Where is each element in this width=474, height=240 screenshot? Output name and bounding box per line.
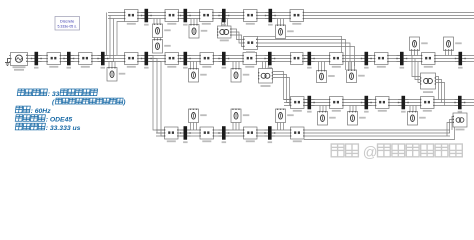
bus B21 (180, 126, 191, 140)
bus B18 (361, 96, 372, 110)
bus B8 (304, 52, 315, 66)
label label T1 (261, 85, 271, 87)
label label load Ld18 (359, 117, 366, 119)
label label M1 (246, 51, 255, 53)
label label B19 (401, 111, 406, 113)
wire bundle V3 T1-to-row3 (273, 72, 291, 106)
line L6 (243, 53, 258, 65)
label label B22 (222, 141, 227, 143)
label label load Ld22 (243, 114, 250, 116)
label label L12 (167, 23, 176, 25)
label label L22 (246, 140, 255, 142)
bus B4 (141, 52, 152, 66)
line L8 (329, 53, 344, 65)
wire Ld6 stubs (3-phase stubs) (233, 62, 239, 69)
wire bundle V2 row2-to-row4 (149, 56, 165, 137)
label label L6 (245, 66, 254, 68)
bus B11 (455, 52, 466, 66)
label label L20 (167, 140, 176, 142)
transformer T2 (420, 73, 436, 89)
load Ld3 (107, 67, 117, 81)
line L10 (421, 53, 436, 65)
line L15 (290, 10, 305, 22)
bus B17 (304, 96, 315, 110)
label label load Ld15 (287, 30, 294, 32)
label label T2 (423, 91, 433, 93)
line L4 (165, 53, 180, 65)
label label load Ld13 (201, 30, 208, 32)
load Ld18 (348, 111, 358, 125)
load Ld19 (408, 111, 418, 125)
label label load Ld5 (200, 74, 207, 76)
label label load Ld8 (328, 75, 335, 77)
svg-text:: ODE45: : ODE45 (46, 117, 73, 124)
label label load Ld10 (421, 42, 428, 44)
wire Ld10 stubs (3-phase stubs) (412, 51, 418, 56)
wire Ld9 stubs (3-phase stubs) (349, 62, 355, 71)
label label L1 (49, 66, 58, 68)
load Ld8 (317, 70, 327, 82)
bus B6 (218, 52, 229, 66)
line L18 (375, 97, 390, 109)
label label L15 (292, 23, 301, 25)
label label load Ld17 (329, 117, 336, 119)
label label B20 (458, 111, 463, 113)
label label B7 (268, 67, 273, 69)
label label load Ld12b (164, 45, 171, 47)
bus B14 (218, 9, 229, 22)
wire Ld13 stubs (3-phase stubs) (191, 19, 197, 25)
wire bundle V4 M1-to-row2 (258, 36, 355, 70)
label label load Ld3 (119, 73, 126, 75)
bus B12 (141, 9, 152, 22)
label label PS1 line1 (13, 66, 26, 68)
line L9 (374, 53, 389, 65)
bus B13 (180, 9, 191, 22)
wire Ld23 stubs (3-phase stubs) (278, 122, 284, 130)
load Ld15 (276, 25, 286, 39)
svg-text:@: @ (363, 145, 378, 161)
line L5 (200, 53, 215, 65)
label label L3 (127, 66, 136, 68)
label label B8 (307, 67, 312, 69)
bus B10 (396, 52, 407, 66)
measurement block M1 (243, 37, 257, 50)
label label L5 (202, 66, 211, 68)
label label B12 (144, 24, 149, 26)
wire feeder row3 (3-phase bundle) (284, 100, 474, 106)
line L20 (164, 127, 179, 139)
label label B4 (144, 67, 149, 69)
label label B1 (34, 67, 39, 69)
label label L13 (202, 23, 211, 25)
line L13 (199, 10, 214, 22)
wire Ld21 stubs (3-phase stubs) (191, 122, 197, 130)
bus B5 (180, 52, 191, 66)
line L14 (243, 10, 258, 22)
wire Ld18 stubs (3-phase stubs) (350, 106, 356, 112)
svg-text:): ) (122, 99, 125, 106)
wire Ld5 stubs (3-phase stubs) (191, 62, 197, 69)
label label load Ld23 (287, 114, 294, 116)
transformer T3 (217, 26, 232, 38)
wire Ld3 stubs (3-phase stubs) (109, 62, 115, 69)
line L19 (420, 97, 435, 109)
label label Ld20 (456, 129, 465, 131)
wire bundle V1 row1-to-row2 (105, 13, 125, 62)
annotation line5: FangZhenBuChang: 33.333 us (15, 123, 45, 130)
label label load Ld11 (455, 42, 462, 44)
label label B6 (222, 67, 227, 69)
bus B22 (218, 126, 229, 140)
powergui block (55, 17, 80, 31)
wire T3-to-M1 (231, 29, 244, 47)
annotation line4: QiuJieSuanFa: ODE45 (15, 115, 45, 122)
label label load Ld12 (164, 29, 171, 31)
load Ld22 (231, 109, 241, 123)
wire bundle V6 row4-end (304, 117, 455, 140)
line L17 (329, 97, 344, 109)
wire Ld8 stubs (3-phase stubs) (319, 62, 325, 71)
load Ld12 (153, 24, 163, 38)
load Ld12b (153, 39, 163, 53)
label label B2 (67, 67, 72, 69)
wire feeder row1 (3-phase bundle) (108, 13, 474, 19)
bus B15 (265, 9, 276, 22)
line L7 (290, 53, 304, 65)
bus B9 (361, 52, 372, 66)
line L21 (200, 127, 215, 139)
wire Ld15 stubs (3-phase stubs) (278, 19, 284, 26)
line L3 (124, 53, 139, 65)
label label B18 (364, 111, 369, 113)
line L1 (47, 53, 62, 65)
label label L2 (81, 66, 90, 68)
label label L4 (167, 66, 176, 68)
load Ld17 (318, 111, 328, 125)
svg-text:5.333e-05 s.: 5.333e-05 s. (57, 24, 76, 28)
svg-text:: 33.333 us: : 33.333 us (46, 125, 81, 132)
label label L16 (293, 110, 302, 112)
transformer T1 (258, 69, 273, 84)
line L23 (290, 127, 305, 139)
label label B15 (268, 24, 273, 26)
label label load Ld21 (200, 114, 207, 116)
label label B11 (458, 67, 463, 69)
load Ld5 (189, 68, 199, 82)
line L11 (124, 10, 139, 22)
label label B17 (307, 111, 312, 113)
wire bundle V5 row2-T2-row3 (412, 56, 445, 106)
label label T3 (220, 40, 229, 42)
label label B10 (400, 67, 405, 69)
label label B13 (183, 24, 188, 26)
watermark: ZhiHu @DianQiDaiMaXiaoPu (331, 144, 358, 157)
label label L18 (378, 110, 387, 112)
label label L14 (246, 23, 255, 25)
label label load Ld19 (419, 117, 426, 119)
label label L19 (423, 110, 432, 112)
wire Ld12b stubs (3-phase stubs) (155, 38, 161, 40)
line L12 (165, 10, 180, 22)
label label L17 (332, 110, 341, 112)
load Ld11 (444, 37, 454, 51)
bus B2 (63, 52, 74, 66)
line L2 (78, 53, 93, 65)
wire Ld19 stubs (3-phase stubs) (410, 106, 416, 112)
wire Ld11 stubs (3-phase stubs) (446, 51, 452, 56)
source PS1 (three-phase programmable voltage source) (10, 53, 27, 66)
label label PS1 line2 (14, 69, 24, 71)
load Ld6 (231, 68, 241, 82)
line L16 (290, 97, 305, 109)
wire T3 stubs (3-phase stubs) (222, 19, 228, 27)
wire Ld22 stubs (3-phase stubs) (233, 122, 239, 130)
label label L8 (332, 66, 341, 68)
load Ld9 (347, 70, 357, 83)
load Ld13 (189, 24, 199, 38)
annotation line3: PinLv: 60Hz (15, 106, 30, 113)
line L22 (243, 127, 258, 139)
label label L9 (377, 66, 386, 68)
load Ld21 (189, 109, 199, 123)
label label load Ld9 (358, 75, 365, 77)
load Ld20 (row4 end block) (453, 113, 467, 127)
wire feeder row4 (3-phase bundle) (156, 130, 450, 136)
label label B3 (101, 67, 106, 69)
annotation line1: TuoPuMingCheng: 33 JieDian PeiDianWang (17, 89, 47, 96)
svg-text:Discrete: Discrete (60, 19, 74, 24)
label label B5 (183, 67, 188, 69)
bus B1 (31, 52, 42, 66)
label label B21 (183, 141, 188, 143)
load Ld10 (410, 37, 420, 51)
wire Ld12 stubs (3-phase stubs) (154, 19, 160, 25)
wire feeder row2 (main) (3-phase bundle) (9, 56, 474, 62)
label label load Ld6 (243, 74, 250, 76)
label label B9 (364, 67, 369, 69)
label label L11 (127, 23, 136, 25)
load Ld23 (276, 109, 286, 123)
bus B7 (264, 52, 275, 66)
label label L23 (293, 140, 302, 142)
bus B3 (97, 52, 108, 66)
label label L21 (202, 140, 211, 142)
bus B20 (454, 96, 465, 110)
svg-text:: 60Hz: : 60Hz (31, 108, 52, 115)
wire T1 stubs (3-phase stubs) (263, 62, 269, 69)
label label B23 (268, 141, 273, 143)
ground G1 (5, 59, 11, 66)
wire Ld17 stubs (3-phase stubs) (320, 106, 326, 112)
label label L10 (424, 66, 433, 68)
bus B19 (398, 96, 409, 110)
bus B23 (264, 126, 275, 140)
label label B14 (222, 24, 227, 26)
svg-text:: 33: : 33 (48, 91, 60, 98)
